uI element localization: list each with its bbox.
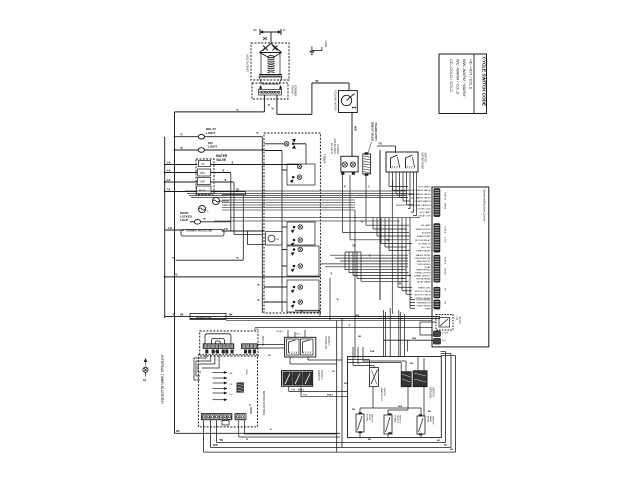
svg-text:LIGHT: LIGHT (208, 145, 217, 149)
wire harness 3 to control (381, 243, 412, 245)
wire bracket 2 to control (349, 272, 409, 274)
mc small box (222, 421, 229, 426)
svg-text:4-B: 4-B (168, 227, 172, 230)
wire temp-sw pin 6 to control (407, 204, 414, 206)
svg-text:LID: LID (455, 317, 457, 321)
svg-text:LIGHT: LIGHT (180, 218, 189, 222)
wire temp-sw pin 5 to control (403, 200, 411, 202)
svg-text:SWITCH: SWITCH (320, 370, 323, 380)
svg-text:HOT LAMP: HOT LAMP (420, 211, 431, 214)
svg-text:POWER WATER: POWER WATER (414, 200, 431, 203)
wire options top entry 3 (362, 347, 364, 357)
wire harness 3 vertical (380, 218, 382, 244)
left bus 1 (174, 112, 176, 433)
mc hatched block (237, 383, 244, 392)
wire bracket 2 vertical (348, 252, 350, 273)
wire lead right (276, 95, 278, 114)
svg-text:EXTRA RINSE: EXTRA RINSE (416, 277, 431, 280)
options top switch 2 (401, 372, 411, 387)
motor terminal squares (206, 350, 209, 354)
water temp switch (386, 152, 418, 172)
svg-text:SWITCH: SWITCH (327, 336, 330, 346)
svg-text:TB5A: TB5A (245, 369, 248, 375)
svg-text:BK: BK (352, 409, 356, 411)
svg-text:OPTIONS: OPTIONS (429, 387, 432, 399)
svg-text:*2B: *2B (352, 246, 356, 248)
wire switch lead 1 vertical (342, 175, 344, 233)
machine control box (432, 187, 489, 347)
svg-text:AC: AC (201, 162, 205, 166)
svg-text:MOTOR: MOTOR (261, 336, 265, 346)
svg-text:TEMP BOOST: TEMP BOOST (417, 261, 432, 263)
svg-text:SWITCH: SWITCH (399, 415, 401, 424)
svg-text:SWITCH: SWITCH (432, 387, 435, 397)
wire sensor 1 vertical (397, 218, 399, 287)
svg-text:TIMER: TIMER (323, 154, 327, 164)
options switch box (348, 357, 442, 438)
motor to pressure switch wires (258, 344, 285, 346)
wire loop v3 (242, 195, 244, 261)
wire temp-sw pin 4 to control (400, 197, 409, 199)
wire harness 4 to control (385, 246, 407, 248)
thermistor 2 (198, 205, 205, 212)
wire harness 5 to control (389, 250, 410, 252)
transformer secondary terminal strip (259, 90, 282, 96)
wire harness 1 to control (373, 228, 407, 230)
transformer core (259, 74, 282, 76)
wire valve bus 4 (191, 197, 406, 199)
wire stub P4-4 (410, 307, 415, 309)
svg-text:GND: GND (324, 41, 328, 47)
svg-text:DELAY LITE: DELAY LITE (419, 215, 432, 218)
svg-text:DOOR SWITCH: DOOR SWITCH (334, 90, 338, 110)
svg-text:1-B: 1-B (167, 162, 171, 165)
svg-text:BK: BK (254, 28, 258, 32)
options top switch 1 (370, 368, 379, 387)
motor pin strip 2 (242, 344, 258, 349)
svg-text:MOTOR CONTROL: MOTOR CONTROL (262, 391, 266, 416)
svg-text:TIMER RESET: TIMER RESET (416, 251, 431, 253)
fabrics switch box (282, 371, 313, 387)
motor control box (198, 355, 257, 427)
svg-text:VREF: VREF (425, 308, 431, 310)
motor box (200, 331, 258, 356)
wire temp-sw pin 8 to control (411, 211, 414, 213)
wire sensor bus 2 (222, 202, 355, 204)
delay light (175, 136, 199, 138)
svg-text:FORMER: FORMER (294, 85, 298, 96)
svg-text:MOTOR CTRL A: MOTOR CTRL A (415, 290, 432, 293)
svg-text:*5B: *5B (219, 439, 223, 442)
wire harness 2 to control (377, 235, 410, 237)
svg-text:*W: *W (315, 79, 319, 83)
svg-text:RELAY: RELAY (458, 317, 461, 325)
wire sensor 3 to control (406, 293, 412, 295)
wire harness 4 vertical (384, 218, 386, 247)
svg-text:DOOR LOCK: DOOR LOCK (418, 209, 431, 211)
svg-text:WC--WARM / COLD: WC--WARM / COLD (456, 59, 461, 94)
diode arrow (263, 37, 267, 40)
wire sensor 1 to control (398, 286, 412, 288)
wire temp-sw pin 4 vertical (399, 172, 401, 198)
wire loop v1 (230, 173, 232, 232)
svg-text:P6-1: P6-1 (296, 334, 301, 336)
svg-text:P4A: P4A (370, 350, 375, 353)
svg-text:WASH SPEED: WASH SPEED (416, 269, 431, 272)
wire sensor bus 4 (222, 207, 355, 209)
svg-text:*B: *B (368, 256, 371, 258)
timer contact group 2 (287, 164, 315, 185)
wire sensor 2 to control (402, 290, 412, 292)
wire options feed 6 (403, 314, 405, 357)
mc exit wires (203, 420, 205, 452)
svg-text:DRAIN PUMP: DRAIN PUMP (417, 235, 431, 238)
svg-text:(GND): (GND) (444, 268, 446, 275)
wire switch lead 3 to control (366, 224, 409, 226)
wire bracket 1 vertical (344, 252, 346, 270)
transformer primary winding (268, 56, 275, 73)
line filter bridge (260, 44, 272, 53)
wire timer feed 2 to control (335, 257, 408, 259)
wire stub P4-2 (410, 302, 415, 304)
buzzer ground symbol (144, 359, 147, 367)
svg-text:RINSE OPTION: RINSE OPTION (415, 273, 431, 275)
svg-text:P5B-3: P5B-3 (298, 390, 305, 392)
svg-text:5A: 5A (143, 378, 146, 382)
wire bracket 5 to control (361, 280, 409, 282)
svg-text:SWITCH: SWITCH (432, 416, 434, 425)
control connector blocks (434, 189, 440, 217)
svg-text:BK: BK (444, 445, 448, 447)
wire band C (230, 217, 420, 219)
wire stub P4-3 (410, 304, 415, 306)
wire harness 5 vertical (388, 218, 390, 251)
wire switch lead 1 to control (343, 232, 410, 234)
options lower sw 1 (356, 414, 364, 432)
svg-text:WATER TEMP: WATER TEMP (421, 153, 424, 170)
on light (175, 149, 199, 151)
svg-text:PUMP SENSE: PUMP SENSE (417, 305, 432, 307)
svg-text:WW--WARM / WARM: WW--WARM / WARM (462, 59, 467, 96)
svg-text:WM: WM (200, 171, 205, 175)
push to start switch (341, 156, 358, 172)
wire temp-sw pin 1 to control (389, 185, 408, 187)
wire sensor 4 to control (410, 297, 412, 299)
svg-text:BK: BK (176, 430, 180, 433)
mc nested top-left wires (194, 355, 206, 380)
wire temp-sw pin 7 to control (408, 208, 410, 210)
svg-text:*B: *B (386, 240, 389, 242)
wire switch lead 2 to control (350, 239, 409, 241)
wire timer feed 4 to control (320, 263, 408, 265)
svg-text:LID LOCK: LID LOCK (421, 247, 431, 249)
door switch box (339, 91, 358, 113)
wire switch lead 2 vertical (349, 175, 351, 240)
mc B bar (250, 407, 252, 414)
options entry wires (348, 359, 370, 361)
svg-text:LIGHT SWITCH: LIGHT SWITCH (375, 122, 378, 140)
wire bracket 4 to control (357, 277, 406, 279)
svg-text:MOTOR CTRL B: MOTOR CTRL B (414, 294, 431, 296)
wire valve bus 1 (185, 190, 406, 192)
svg-text:WATER LEVEL: WATER LEVEL (416, 254, 432, 257)
svg-text:SWITCH: SWITCH (371, 414, 373, 423)
wire W lead left (263, 95, 265, 112)
svg-text:N.C.: N.C. (442, 340, 447, 342)
valve coil MAIN (197, 186, 212, 194)
svg-text:THERMISTOR: THERMISTOR (416, 303, 431, 305)
wire temp-sw pin 9 vertical (416, 172, 418, 216)
svg-text:FABRIC SEL: FABRIC SEL (418, 286, 431, 289)
svg-text:WARM WATER VALVE: WARM WATER VALVE (409, 193, 432, 196)
svg-text:(RED): (RED) (444, 203, 446, 209)
svg-text:BUZZER: BUZZER (422, 233, 431, 235)
svg-text:SELECT: SELECT (396, 415, 398, 424)
wire timer feed 5 to control (325, 266, 408, 268)
svg-text:SENSOR LOCKED/TEMP SENSOR: SENSOR LOCKED/TEMP SENSOR (396, 205, 431, 207)
svg-text:4-B: 4-B (167, 170, 171, 173)
left bus 2 (164, 137, 166, 318)
svg-text:Household/Machine Control: Household/Machine Control (483, 189, 487, 221)
pressure switch bottom wires (289, 357, 291, 364)
wires below switches (379, 150, 381, 300)
mc bottom pin strip 2 (235, 414, 246, 420)
wire options feed 4 (398, 310, 400, 357)
wire temp-sw pin 9 to control (413, 215, 417, 217)
leader line (368, 142, 372, 153)
svg-text:SWITCH: SWITCH (424, 153, 427, 163)
svg-text:W/B: W/B (355, 315, 360, 317)
svg-text:DELAY WASH: DELAY WASH (417, 280, 431, 283)
valve coil WM (198, 169, 211, 176)
transformer box (252, 83, 288, 99)
wire bracket 1 to control (345, 269, 406, 271)
mid vertical wires (336, 321, 338, 453)
wire loop v2 (233, 182, 235, 235)
svg-text:GY: GY (367, 185, 369, 189)
timer motor (266, 232, 283, 246)
water valve box (196, 159, 214, 195)
wire sensor bus 3 (222, 204, 355, 206)
options lower sw 2 (384, 415, 392, 434)
svg-text:ON LAMP: ON LAMP (421, 224, 431, 227)
wire sensor 3 vertical (405, 218, 407, 294)
svg-text:P6-4(L): P6-4(L) (276, 331, 284, 333)
wire: left lead to left bus (175, 111, 265, 113)
wire valve bus 3 (189, 195, 406, 197)
wire valve bus 2 (187, 193, 406, 195)
wire options feed 3 (389, 308, 391, 357)
GND symbol (311, 46, 313, 50)
svg-text:COLD WATER VALVE: COLD WATER VALVE (409, 197, 431, 200)
wire bracket 4 vertical (356, 252, 358, 278)
wire temp-sw pin 5 vertical (402, 172, 404, 201)
svg-text:BK: BK (428, 411, 432, 413)
svg-text:BK: BK (437, 440, 441, 442)
wire sensor 4 vertical (409, 218, 411, 298)
internal protector (181, 230, 224, 237)
svg-text:COM W: COM W (444, 192, 446, 201)
cycle switch code box (439, 54, 487, 114)
wire temp-sw pin 1 vertical (388, 172, 390, 186)
svg-text:LID SWITCH: LID SWITCH (418, 244, 431, 246)
thermistor 1 (212, 197, 219, 204)
options lower box pins (359, 413, 362, 415)
svg-text:MOTOR RELAY: MOTOR RELAY (415, 239, 431, 242)
svg-text:BK: BK (410, 363, 414, 365)
svg-text:COM A: COM A (444, 226, 447, 234)
svg-text:VALVE: VALVE (216, 158, 226, 162)
svg-text:CYCLE SWITCH CODE: CYCLE SWITCH CODE (482, 57, 487, 107)
wire to door block (384, 339, 434, 341)
valve left stubs (165, 164, 197, 166)
svg-text:BK: BK (450, 449, 454, 451)
timer contact group 1 (265, 143, 285, 145)
svg-text:B: B (268, 104, 270, 107)
svg-text:MAIN: MAIN (199, 189, 206, 193)
svg-text:PRESSURE: PRESSURE (324, 336, 327, 350)
svg-text:(+5V): (+5V) (444, 237, 446, 243)
line cord (260, 31, 281, 33)
svg-text:LIGHT: LIGHT (206, 131, 215, 135)
svg-text:PRESSURE SW: PRESSURE SW (415, 258, 432, 260)
svg-text:LINE FILTER: LINE FILTER (246, 54, 250, 72)
svg-text:P6-2: P6-2 (254, 329, 259, 331)
svg-text:W/B: W/B (213, 444, 218, 447)
wire band D (thick pair) (165, 316, 440, 318)
svg-text:SWITCH: SWITCH (383, 388, 385, 397)
svg-text:TIMER MOTOR: TIMER MOTOR (415, 229, 431, 231)
svg-text:SOAK: SOAK (425, 266, 432, 269)
svg-text:P5B: P5B (303, 395, 308, 397)
svg-text:SIGNAL SELECT: SIGNAL SELECT (414, 275, 431, 278)
valve right wires (211, 164, 300, 166)
timer group5 tail wire (295, 309, 320, 311)
svg-text:HOT-WATER VALVE: HOT-WATER VALVE (411, 189, 431, 192)
svg-text:FABRICS: FABRICS (317, 370, 320, 381)
wire options top entry 2 (357, 347, 359, 357)
wire options top entry 1 (352, 347, 354, 357)
options lower sw 3 (417, 416, 425, 434)
svg-text:3-B: 3-B (167, 179, 171, 182)
svg-text:TM: TM (276, 239, 279, 241)
svg-text:HOT WIRED: HOT WIRED (418, 186, 431, 188)
motor stator windings (205, 334, 231, 344)
valve coil SAF (198, 178, 211, 185)
svg-text:BK: BK (368, 439, 372, 441)
wire temp-sw pin 2 to control (393, 189, 411, 191)
wire sensor bus 5 (222, 209, 355, 211)
timer inner vertical (281, 151, 283, 313)
svg-text:HC--HOT / COLD: HC--HOT / COLD (469, 59, 474, 90)
timer contact group 5 (287, 280, 319, 312)
svg-text:BK: BK (358, 336, 362, 338)
transformer bell (259, 77, 282, 84)
mc bottom pin strip 1 (201, 414, 232, 420)
svg-text:P5B: P5B (291, 389, 296, 391)
wire sensor bus 1 (222, 199, 355, 201)
svg-text:COM B: COM B (444, 257, 446, 265)
wire switch lead 3 vertical (365, 175, 367, 225)
wire bracket 5 vertical (360, 252, 362, 281)
choke X right (273, 46, 278, 51)
wire door sw to push sw (351, 113, 353, 157)
options internal wires (359, 408, 361, 414)
svg-text:7-B: 7-B (167, 189, 171, 192)
lid relay box (436, 315, 453, 331)
wire bracket 3 vertical (352, 252, 354, 276)
mc arrow column (213, 372, 228, 374)
svg-text:CC--COLD / COLD: CC--COLD / COLD (449, 59, 454, 92)
wire timer feed 3 to control (340, 260, 408, 262)
svg-text:SPIN SPEED: SPIN SPEED (418, 264, 431, 266)
svg-text:SWITCH: SWITCH (337, 144, 340, 154)
wire temp-sw pin 3 to control (396, 193, 413, 195)
wire sensor 2 vertical (401, 218, 403, 291)
wire options feed 1 (383, 310, 385, 357)
long cross wires (176, 259, 244, 261)
wire options feed 5 (399, 312, 401, 357)
long mid verticals (391, 180, 393, 314)
wire harness 2 vertical (376, 218, 378, 236)
timer contact group 3 (287, 222, 315, 245)
door locked light switch slider (363, 154, 371, 174)
long bottom wires (216, 441, 445, 443)
svg-text:THERMAL PROTECTOR: THERMAL PROTECTOR (186, 229, 213, 232)
svg-text:RINSE: RINSE (368, 414, 370, 421)
svg-text:-INTERNAL TIMER BUZZER/D: -INTERNAL TIMER BUZZER/D (160, 354, 164, 404)
svg-text:BK: BK (180, 313, 184, 316)
wire band E (255, 327, 432, 329)
svg-text:W/B: W/B (354, 126, 357, 131)
wire timer feed 1 to control (330, 254, 408, 256)
drain pump (190, 314, 226, 320)
wire options feed 2 (385, 312, 387, 357)
wire *5 vertical (261, 137, 263, 313)
svg-text:TEMP BOOST: TEMP BOOST (380, 388, 382, 402)
svg-text:DOOR SENSE: DOOR SENSE (416, 300, 431, 302)
wire harness 1 vertical (372, 218, 374, 229)
wire: right lead to door switch (277, 113, 312, 115)
pressure switch box (285, 337, 316, 357)
wire temp-sw pin 3 vertical (395, 172, 397, 194)
bus bottom corner (175, 432, 341, 434)
svg-text:BK: BK (229, 313, 233, 316)
svg-text:W/B: W/B (398, 406, 403, 408)
right risers (445, 352, 447, 443)
pressure switch top stubs (287, 330, 289, 337)
wire stub P4-1 (410, 299, 415, 301)
wire bracket 3 to control (353, 275, 411, 277)
wire temp-sw pin 2 vertical (392, 172, 394, 190)
svg-text:SAF: SAF (200, 180, 205, 184)
svg-text:W/B: W/B (344, 383, 349, 385)
svg-text:DOOR: DOOR (442, 333, 449, 335)
options top switch 3 (413, 371, 427, 387)
valve coil AC (199, 161, 211, 167)
svg-text:*B: *B (336, 299, 339, 301)
wire temp-sw pin 6 vertical (406, 172, 408, 205)
timer contact group 4 (287, 246, 319, 276)
motor pin strip 1 (203, 344, 234, 349)
line filter box (251, 43, 289, 80)
timer box (264, 133, 320, 313)
svg-text:W/B: W/B (412, 338, 417, 340)
fabrics bottom wires (288, 386, 290, 391)
svg-text:2-B: 2-B (224, 228, 228, 231)
svg-text:P5B-1: P5B-1 (327, 395, 334, 397)
door blocks (434, 331, 441, 337)
